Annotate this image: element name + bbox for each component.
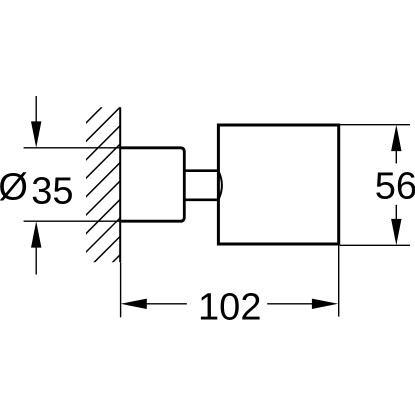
mounting flange bbox=[120, 148, 184, 221]
extension line left (102) bbox=[120, 262, 122, 317]
dimension dia35 top arrow bbox=[35, 96, 37, 124]
wall hatching bbox=[0, 0, 375, 280]
dimension dia35 bottom arrow bbox=[31, 221, 41, 247]
extension line right (102) bbox=[338, 246, 340, 317]
holder cup body bbox=[218, 125, 338, 244]
extension line bottom (56) bbox=[340, 244, 410, 246]
neck end cap arc bbox=[219, 171, 222, 200]
wall face line bbox=[119, 107, 121, 262]
svg-text:35: 35 bbox=[31, 170, 73, 212]
dimension 102 left arrow bbox=[121, 299, 147, 309]
svg-text:102: 102 bbox=[198, 287, 261, 329]
extension line bottom (dia 35) bbox=[24, 220, 120, 222]
extension line top (56) bbox=[340, 124, 410, 126]
extension line top (dia 35) bbox=[24, 147, 120, 149]
dimension 56 bottom arrow bbox=[395, 205, 397, 221]
dimension 56 top arrow bbox=[391, 125, 401, 151]
svg-text:56: 56 bbox=[375, 166, 415, 208]
svg-text:Ø: Ø bbox=[0, 167, 28, 209]
dimension 102 right arrow bbox=[267, 303, 314, 305]
connecting neck bbox=[184, 169, 218, 172]
